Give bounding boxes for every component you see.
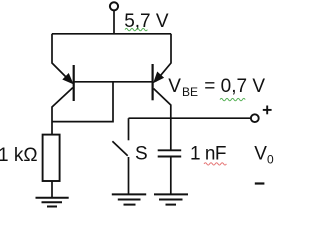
transistor Q1 bar bbox=[73, 65, 75, 101]
svg-text:S: S bbox=[135, 144, 148, 165]
plus sign bbox=[263, 106, 272, 115]
emitter arrow Q1 bbox=[63, 74, 73, 84]
squiggle under 5,7 bbox=[125, 28, 147, 30]
minus sign bbox=[255, 182, 265, 184]
terminal (supply) bbox=[110, 2, 118, 10]
wire base link bbox=[74, 81, 153, 83]
transistor Q2 bar bbox=[152, 64, 154, 100]
svg-text:1 kΩ: 1 kΩ bbox=[0, 145, 38, 166]
resistor R (1 kOhm) bbox=[43, 135, 60, 181]
wire capacitor bottom bbox=[170, 157, 172, 195]
ground (resistor) bbox=[36, 198, 69, 207]
wire switch top bbox=[128, 118, 130, 140]
wire resistor to ground bbox=[51, 181, 53, 198]
wire top rail bbox=[52, 33, 171, 35]
capacitor C plates bbox=[158, 150, 182, 156]
switch S blade bbox=[112, 141, 127, 156]
wire supply drop bbox=[113, 10, 115, 34]
emitter arrow Q2 bbox=[154, 72, 164, 82]
svg-text:1 nF: 1 nF bbox=[190, 143, 226, 164]
wire right emitter drop bbox=[156, 34, 171, 81]
wire left emitter drop bbox=[52, 34, 71, 82]
wire Q2 collector bbox=[154, 89, 171, 151]
terminal (output) bbox=[251, 114, 259, 122]
wire base drop bbox=[52, 82, 113, 122]
squiggle under 0,7 bbox=[220, 98, 245, 100]
wire Q1 collector bbox=[52, 88, 73, 135]
wire switch bottom bbox=[128, 157, 130, 194]
squiggle under nF bbox=[204, 163, 226, 165]
ground (capacitor) bbox=[154, 194, 188, 204]
ground (switch) bbox=[112, 194, 146, 204]
wire output line bbox=[129, 117, 251, 119]
